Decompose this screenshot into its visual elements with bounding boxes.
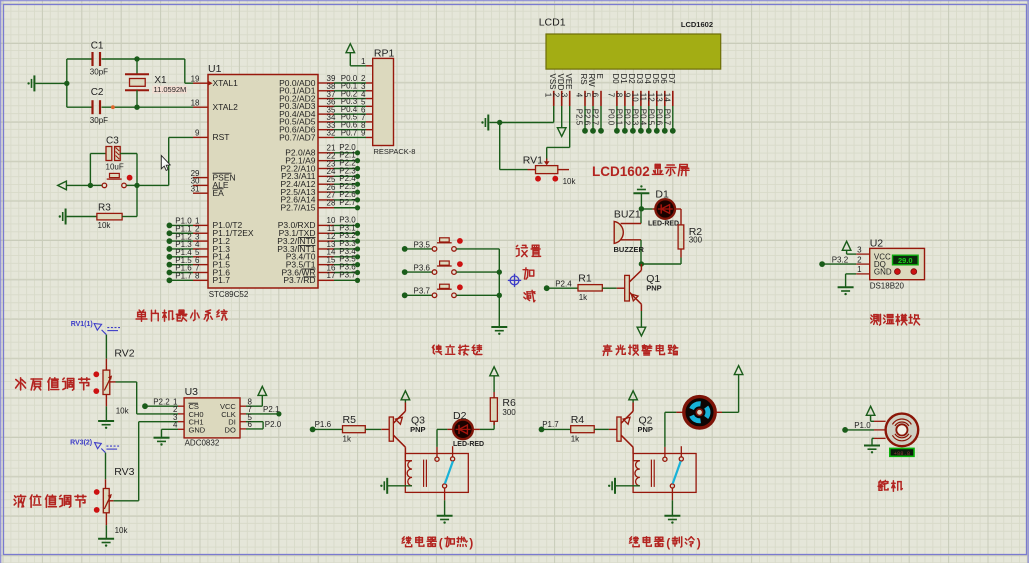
svg-text:PNP: PNP xyxy=(410,425,425,434)
svg-text:D1: D1 xyxy=(619,74,628,85)
pin U2 DQ (2) net P3.2 xyxy=(819,255,870,267)
svg-text:): ) xyxy=(697,536,701,550)
svg-text:D4: D4 xyxy=(643,74,652,85)
ground (relay RL1 common) xyxy=(437,516,453,524)
svg-text:P3.7: P3.7 xyxy=(414,287,431,296)
svg-text:P2.7: P2.7 xyxy=(339,198,356,207)
svg-text:RW: RW xyxy=(587,74,596,88)
svg-text:RV1: RV1 xyxy=(523,154,543,166)
pin XTAL2 (18) xyxy=(191,98,239,112)
svg-text:RV1(1): RV1(1) xyxy=(71,321,93,328)
ADC U3 ADC0832 body xyxy=(184,386,240,448)
svg-text:P0.1: P0.1 xyxy=(615,109,624,126)
push button P3.5 xyxy=(402,238,499,252)
svg-text:10k: 10k xyxy=(563,177,577,186)
svg-text:D1: D1 xyxy=(655,189,669,201)
ground (R3) xyxy=(59,209,66,225)
capacitor C3 (10uF) xyxy=(90,136,137,172)
svg-text:P2.2: P2.2 xyxy=(153,397,170,406)
svg-text:14: 14 xyxy=(663,93,672,102)
junction node D1-BUZ1 xyxy=(639,206,644,211)
wire LCD VEE to RV1 wiper xyxy=(547,106,570,160)
svg-text:P0.5: P0.5 xyxy=(647,109,656,126)
svg-text:R6: R6 xyxy=(502,397,516,409)
svg-text:10k: 10k xyxy=(115,526,129,535)
power symbol (servo) xyxy=(866,406,875,421)
ground (U3) xyxy=(154,438,170,446)
junction node Q1 collector xyxy=(639,261,644,266)
pin ALE (30) xyxy=(191,177,229,191)
svg-text:12: 12 xyxy=(647,93,656,102)
svg-text:13: 13 xyxy=(655,93,664,102)
pin XTAL1 (19) xyxy=(191,74,239,88)
potentiometer RV2 10k xyxy=(93,335,134,416)
svg-text:D6: D6 xyxy=(659,74,668,85)
svg-text:RST: RST xyxy=(213,132,230,142)
pin P0.6/AD6 (33) wire to RP1 xyxy=(279,120,373,134)
svg-text:6: 6 xyxy=(248,420,253,429)
svg-text:300: 300 xyxy=(689,236,703,245)
net label P1.7 wire xyxy=(539,420,571,432)
power symbol (U3 VCC) xyxy=(258,386,267,395)
origin marker xyxy=(508,274,521,287)
svg-text:1: 1 xyxy=(543,93,552,98)
svg-text:DS18B20: DS18B20 xyxy=(870,281,905,290)
pin RST (9) xyxy=(193,129,230,143)
pin EA (31) xyxy=(191,184,225,198)
svg-text:LCD1: LCD1 xyxy=(539,16,566,28)
pin P0.3/AD3 (36) wire to RP1 xyxy=(279,97,373,111)
ground (U2) xyxy=(838,287,854,295)
svg-text:10: 10 xyxy=(631,93,640,102)
pin PSEN (29) xyxy=(191,169,236,183)
pin P0.1/AD1 (38) wire to RP1 xyxy=(279,82,373,96)
LCD pin 1 VSS xyxy=(543,74,556,107)
svg-text:D2: D2 xyxy=(627,74,636,85)
ground (relay RL1 coil) xyxy=(380,478,387,494)
pin P1.5 (6) with net label xyxy=(167,256,231,270)
svg-text:D5: D5 xyxy=(651,74,660,85)
label dan-pian-ji-zui-xiao-xi-tong xyxy=(136,310,227,321)
pin P1.7 (8) with net label xyxy=(167,272,231,286)
svg-text:BUZZER: BUZZER xyxy=(614,245,645,254)
wire C3 right xyxy=(136,154,138,186)
wire buttons common xyxy=(497,249,502,327)
svg-text:P0.4: P0.4 xyxy=(639,109,648,126)
svg-text:P0.2: P0.2 xyxy=(623,109,632,126)
pin P3.4 (14) with net label xyxy=(286,247,360,262)
junction node reset-left xyxy=(88,183,93,188)
svg-text:GND: GND xyxy=(189,425,206,434)
svg-text:P3.5: P3.5 xyxy=(414,240,431,249)
pin P1.4 (5) with net label xyxy=(167,248,231,262)
pin U3 CLK (7) net P2.1 xyxy=(240,405,282,417)
svg-text:P1.7: P1.7 xyxy=(542,420,559,429)
power symbol (Q3) xyxy=(401,391,410,403)
svg-text:32: 32 xyxy=(327,129,336,138)
svg-text:4: 4 xyxy=(575,93,584,98)
net label P1.6 wire xyxy=(310,420,343,432)
LCD pin 11 D4 xyxy=(639,74,652,134)
svg-text:9: 9 xyxy=(195,129,200,138)
pin U2 VCC (3) power xyxy=(842,241,869,254)
pin P0.4/AD4 (35) wire to RP1 xyxy=(279,105,373,119)
orange marker on XTAL2 wire xyxy=(111,105,115,109)
pin P3.6 (16) with net label xyxy=(281,263,360,278)
LCD pin 5 RW xyxy=(583,74,596,134)
wire RV3 bottom to ground xyxy=(105,525,107,538)
servo motor xyxy=(874,414,918,457)
pin U3 CS (1) net P2.2 xyxy=(142,397,184,409)
svg-text:U1: U1 xyxy=(208,63,222,75)
ground (above D1) xyxy=(633,185,649,209)
wire RP1 pin 1 xyxy=(350,57,372,66)
label du-li-an-jian xyxy=(432,345,482,355)
ground (RV2) xyxy=(98,421,114,429)
svg-text:EA: EA xyxy=(213,188,225,198)
svg-text:P1.0: P1.0 xyxy=(854,421,871,430)
ground (LCD VSS) xyxy=(481,115,488,131)
relay RL1 (heater) xyxy=(388,446,468,500)
svg-text:1k: 1k xyxy=(571,435,580,444)
svg-text:GND: GND xyxy=(874,268,892,277)
resistor R4 1k xyxy=(571,414,617,443)
svg-text:1k: 1k xyxy=(343,435,352,444)
pin P0.7/AD7 (32) wire to RP1 xyxy=(279,128,373,142)
pin P3.3 (13) with net label xyxy=(277,239,360,254)
ground (relay RL2 common) xyxy=(664,516,680,524)
net label P1.0 wire xyxy=(842,421,874,433)
svg-text:C3: C3 xyxy=(106,136,119,147)
resistor pack RP1 RESPACK-8 body xyxy=(373,48,416,157)
resistor R2 300 xyxy=(641,209,702,264)
wire VSS-junction to RV1 xyxy=(500,123,528,170)
svg-text:3: 3 xyxy=(559,93,568,98)
svg-text:LCD1602: LCD1602 xyxy=(592,164,650,179)
pin P0.5/AD5 (34) wire to RP1 xyxy=(279,113,373,127)
potentiometer RV3 10k xyxy=(94,453,135,535)
LCD pin 9 D2 xyxy=(623,74,636,134)
svg-text:10k: 10k xyxy=(98,221,112,230)
label duo-ji xyxy=(878,480,902,491)
ground arrow (reset button) xyxy=(58,181,91,190)
junction node C1-X1 xyxy=(134,56,139,61)
pin P2.1/A9 (22) with net label xyxy=(285,151,360,166)
svg-text:P1.6: P1.6 xyxy=(315,420,332,429)
svg-text:300: 300 xyxy=(502,408,516,417)
svg-text:P1.7: P1.7 xyxy=(213,275,231,285)
pin P0.0/AD0 (39) wire to RP1 xyxy=(279,74,373,88)
pin P2.0/A8 (21) with net label xyxy=(285,143,360,158)
svg-text:P3.7: P3.7 xyxy=(339,270,356,279)
svg-text:9: 9 xyxy=(623,93,632,98)
svg-text:PNP: PNP xyxy=(638,425,653,434)
crystal X1 xyxy=(125,59,187,107)
LCD pin 8 D1 xyxy=(615,74,628,134)
LCD pin 7 D0 xyxy=(607,74,620,134)
svg-text:BUZ1: BUZ1 xyxy=(614,209,641,221)
resistor R1 1k xyxy=(578,273,625,303)
relay RL2 (cooler) xyxy=(616,446,696,500)
label LCD1602 xian-shi-ping xyxy=(592,164,689,179)
svg-text:D3: D3 xyxy=(635,74,644,85)
microcontroller U1 STC89C52 body xyxy=(208,63,318,299)
pin P3.2 (12) with net label xyxy=(277,231,360,246)
svg-text:P2.7/A15: P2.7/A15 xyxy=(281,203,316,213)
pin P2.4/A12 (25) with net label xyxy=(281,174,361,189)
svg-text:P1.7: P1.7 xyxy=(175,272,192,281)
potentiometer RV1 10k xyxy=(523,154,577,186)
capacitor C1 xyxy=(67,41,137,77)
svg-text:P0.7: P0.7 xyxy=(341,128,358,137)
label ji-dian-qi (jia-re) xyxy=(402,536,473,550)
svg-text:D2: D2 xyxy=(453,410,467,422)
svg-text:R4: R4 xyxy=(571,414,585,426)
svg-text:7: 7 xyxy=(607,93,616,98)
power symbol (Q2) xyxy=(629,391,638,403)
LCD pin 10 D3 xyxy=(631,74,644,134)
svg-text:P2.0: P2.0 xyxy=(265,420,282,429)
svg-text:U2: U2 xyxy=(870,238,884,250)
label ce-wen-mo-kuai xyxy=(871,314,920,325)
svg-text:11: 11 xyxy=(639,93,648,102)
svg-text:9: 9 xyxy=(361,129,366,138)
svg-text:P0.7: P0.7 xyxy=(663,109,672,126)
label ye-wei-zhi-tiao-jie xyxy=(14,495,86,507)
wire RV3 wiper to U3 CH1 xyxy=(114,422,178,501)
pin P2.3/A11 (24) with net label xyxy=(281,166,360,181)
capacitor C2 xyxy=(67,87,193,125)
pin U3 VCC (8) xyxy=(240,395,262,406)
svg-text:XTAL2: XTAL2 xyxy=(213,102,239,112)
svg-text:VEE: VEE xyxy=(564,74,573,90)
pin P0.2/AD2 (37) wire to RP1 xyxy=(279,89,373,103)
transistor Q3 PNP xyxy=(389,403,425,454)
svg-text:C2: C2 xyxy=(91,87,104,98)
pin U3 GND (4) xyxy=(162,421,185,438)
svg-text:2: 2 xyxy=(857,255,862,264)
pin U3 DI (5) + DO (6) net P2.0 xyxy=(240,413,282,429)
svg-text:2: 2 xyxy=(551,93,560,98)
resistor R3 xyxy=(67,185,137,230)
svg-text:VSS: VSS xyxy=(548,74,557,90)
svg-text:P0.3: P0.3 xyxy=(631,109,640,126)
svg-text:P2.1: P2.1 xyxy=(263,405,280,414)
pin U3 CH0 (2) xyxy=(173,405,184,414)
voltage probe RV1(1) xyxy=(71,321,120,335)
pin P3.7 (17) with net label xyxy=(283,270,360,285)
svg-text:30pF: 30pF xyxy=(90,68,108,77)
svg-text:RV2: RV2 xyxy=(114,348,134,360)
svg-text:LED-RED: LED-RED xyxy=(648,220,679,227)
LCD pin 13 D6 xyxy=(655,74,668,134)
wire RV2 bottom to ground xyxy=(105,406,107,420)
label she-zhi jia jian xyxy=(516,245,540,302)
svg-text:U3: U3 xyxy=(185,386,199,398)
pin P1.6 (7) with net label xyxy=(167,264,231,278)
pin P3.0 (10) with net label xyxy=(278,215,360,230)
pin P3.5 (15) with net label xyxy=(286,255,360,270)
LCD pin 6 E xyxy=(591,74,604,134)
resistor R5 1k xyxy=(343,414,390,443)
transistor Q1 PNP xyxy=(625,264,662,311)
wire relay RL1 common to ground xyxy=(444,500,446,515)
wire relay RL2 common to ground xyxy=(671,500,673,515)
pin U2 GND (1) xyxy=(846,265,870,287)
svg-text:19: 19 xyxy=(191,74,200,83)
temperature sensor U2 DS18B20 xyxy=(870,238,925,291)
svg-text:E: E xyxy=(595,74,604,79)
svg-text:(: ( xyxy=(439,536,443,550)
resistor R6 300 xyxy=(480,376,516,430)
pin P2.7/A15 (28) with net label xyxy=(281,198,361,213)
svg-text:LCD1602: LCD1602 xyxy=(681,20,713,29)
svg-text:P2.5: P2.5 xyxy=(575,109,584,126)
junction node C2-X1 xyxy=(134,105,139,110)
svg-text:10uF: 10uF xyxy=(106,163,124,172)
svg-text:D7: D7 xyxy=(667,74,676,85)
svg-text:DO: DO xyxy=(225,425,236,434)
label sheng-guang-bao-jing-dian-lu xyxy=(603,345,678,356)
power symbol (R6) xyxy=(490,367,499,376)
LCD pin 14 D7 xyxy=(663,74,676,134)
svg-text:ADC0832: ADC0832 xyxy=(185,439,220,448)
push button P3.7 xyxy=(402,284,499,298)
power symbol (motor) xyxy=(734,366,743,375)
svg-text:LED-RED: LED-RED xyxy=(453,441,484,448)
net label P2.4 wire xyxy=(544,279,578,291)
svg-text:PNP: PNP xyxy=(646,283,661,292)
pin P2.2/A10 (23) with net label xyxy=(281,159,361,174)
svg-text:R5: R5 xyxy=(343,414,357,426)
push button P3.6 xyxy=(402,261,499,275)
svg-text:P2.4: P2.4 xyxy=(555,279,572,288)
svg-text:11.0592M: 11.0592M xyxy=(154,85,187,94)
svg-text:5: 5 xyxy=(583,93,592,98)
svg-text:+88.8: +88.8 xyxy=(894,450,911,457)
wire XTAL1 net xyxy=(137,59,193,83)
transistor Q2 PNP xyxy=(617,403,653,454)
voltage probe RV3(2) xyxy=(70,440,119,453)
svg-text:P0.7/AD7: P0.7/AD7 xyxy=(279,132,316,142)
svg-text:31: 31 xyxy=(191,184,200,193)
motor fan xyxy=(665,375,739,447)
junction node reset-right xyxy=(134,183,139,188)
svg-text:RV3: RV3 xyxy=(114,466,134,478)
svg-text:(: ( xyxy=(666,536,670,550)
label shui-zhi-zhi-tiao-jie xyxy=(16,378,90,390)
svg-text:8: 8 xyxy=(195,272,200,281)
svg-text:): ) xyxy=(469,536,473,550)
pin P2.5/A13 (26) with net label xyxy=(281,182,361,197)
svg-text:RP1: RP1 xyxy=(374,48,395,60)
LCD1 display screen xyxy=(539,16,721,69)
svg-text:P3.6: P3.6 xyxy=(414,264,431,273)
pin U3 CH1 (3) xyxy=(173,413,184,422)
mouse cursor xyxy=(161,156,170,171)
svg-text:18: 18 xyxy=(191,98,200,107)
svg-text:D0: D0 xyxy=(611,74,620,85)
svg-text:17: 17 xyxy=(327,271,336,280)
svg-text:10k: 10k xyxy=(116,407,130,416)
ground (relay RL2 coil) xyxy=(608,478,615,494)
svg-text:P3.2: P3.2 xyxy=(832,255,849,264)
LCD pin 3 VEE xyxy=(559,74,572,107)
power symbol (RP1 pin 1) xyxy=(346,44,355,66)
pin P1.2 (3) with net label xyxy=(167,232,231,246)
LCD pin 12 D5 xyxy=(647,74,660,134)
svg-text:P0.0: P0.0 xyxy=(607,109,616,126)
svg-text:1: 1 xyxy=(361,57,366,66)
wire C1-C2 left vertical xyxy=(64,59,69,107)
wire RST net xyxy=(137,137,193,185)
svg-text:3: 3 xyxy=(857,245,862,254)
svg-text:1: 1 xyxy=(857,265,862,274)
ground arrow (Q1 emitter) xyxy=(637,311,646,336)
pin P1.0 (1) with net label xyxy=(167,217,243,231)
svg-text:C1: C1 xyxy=(91,41,104,52)
svg-text:STC89C52: STC89C52 xyxy=(209,290,249,299)
pin P3.1 (11) with net label xyxy=(279,223,360,238)
diode D1 LED-RED xyxy=(641,189,681,228)
pin P1.3 (4) with net label xyxy=(167,240,231,254)
svg-text:29.0: 29.0 xyxy=(898,256,913,265)
svg-text:R3: R3 xyxy=(98,203,111,214)
svg-text:XTAL1: XTAL1 xyxy=(213,78,239,88)
svg-text:30pF: 30pF xyxy=(90,116,108,125)
pin P2.6/A14 (27) with net label xyxy=(281,190,361,205)
svg-text:P2.6: P2.6 xyxy=(583,109,592,126)
wire RV2 wiper to U3 CH0 xyxy=(116,382,179,414)
ground (RV3) xyxy=(98,539,114,547)
svg-text:P2.7: P2.7 xyxy=(591,109,600,126)
ground (left of C1/C2) xyxy=(27,75,66,91)
svg-text:RESPACK-8: RESPACK-8 xyxy=(374,147,416,156)
svg-text:4: 4 xyxy=(173,421,178,430)
label ji-dian-qi (zhi-leng) xyxy=(629,536,700,550)
LCD pin 4 RS xyxy=(575,74,588,134)
wire C3 left xyxy=(89,154,91,186)
svg-text:RV3(2): RV3(2) xyxy=(70,440,92,447)
power-down arrow (LCD VDD) xyxy=(557,106,566,136)
ground (servo) xyxy=(864,438,880,453)
svg-text:R1: R1 xyxy=(578,273,592,285)
svg-text:6: 6 xyxy=(591,93,600,98)
svg-text:8: 8 xyxy=(615,93,624,98)
pin P1.1 (2) with net label xyxy=(167,224,254,238)
push button (reset) xyxy=(90,173,137,187)
svg-text:VDD: VDD xyxy=(556,74,565,91)
svg-text:P0.6: P0.6 xyxy=(655,109,664,126)
buzzer BUZ1 xyxy=(614,209,645,265)
svg-text:1k: 1k xyxy=(579,293,588,302)
ground (buttons) xyxy=(491,327,507,335)
svg-text:RS: RS xyxy=(579,74,588,85)
wire LCD VSS to ground xyxy=(490,106,554,125)
diode D2 LED-RED xyxy=(437,410,484,448)
svg-text:28: 28 xyxy=(327,199,336,208)
LCD pin 2 VDD xyxy=(551,74,564,107)
